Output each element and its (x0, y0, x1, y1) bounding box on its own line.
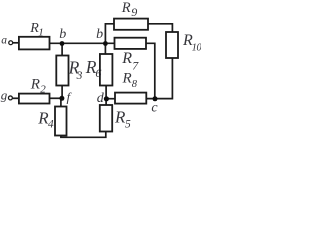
svg-text:R: R (121, 0, 131, 16)
svg-text:8: 8 (132, 79, 138, 90)
svg-text:3: 3 (76, 70, 83, 82)
svg-text:5: 5 (125, 119, 131, 131)
svg-text:2: 2 (40, 83, 46, 95)
svg-text:1: 1 (38, 27, 44, 39)
svg-text:6: 6 (95, 66, 101, 80)
svg-text:d: d (97, 91, 105, 106)
svg-text:b: b (96, 27, 103, 42)
svg-text:R: R (121, 50, 132, 67)
svg-text:a: a (1, 35, 7, 47)
svg-text:R: R (30, 77, 40, 93)
svg-text:g: g (1, 88, 8, 103)
svg-text:R: R (122, 71, 132, 87)
svg-text:b: b (59, 27, 66, 42)
svg-text:9: 9 (131, 5, 137, 19)
svg-text:4: 4 (48, 118, 54, 130)
svg-text:10: 10 (192, 42, 201, 53)
svg-text:c: c (151, 101, 158, 116)
svg-text:7: 7 (132, 58, 139, 72)
